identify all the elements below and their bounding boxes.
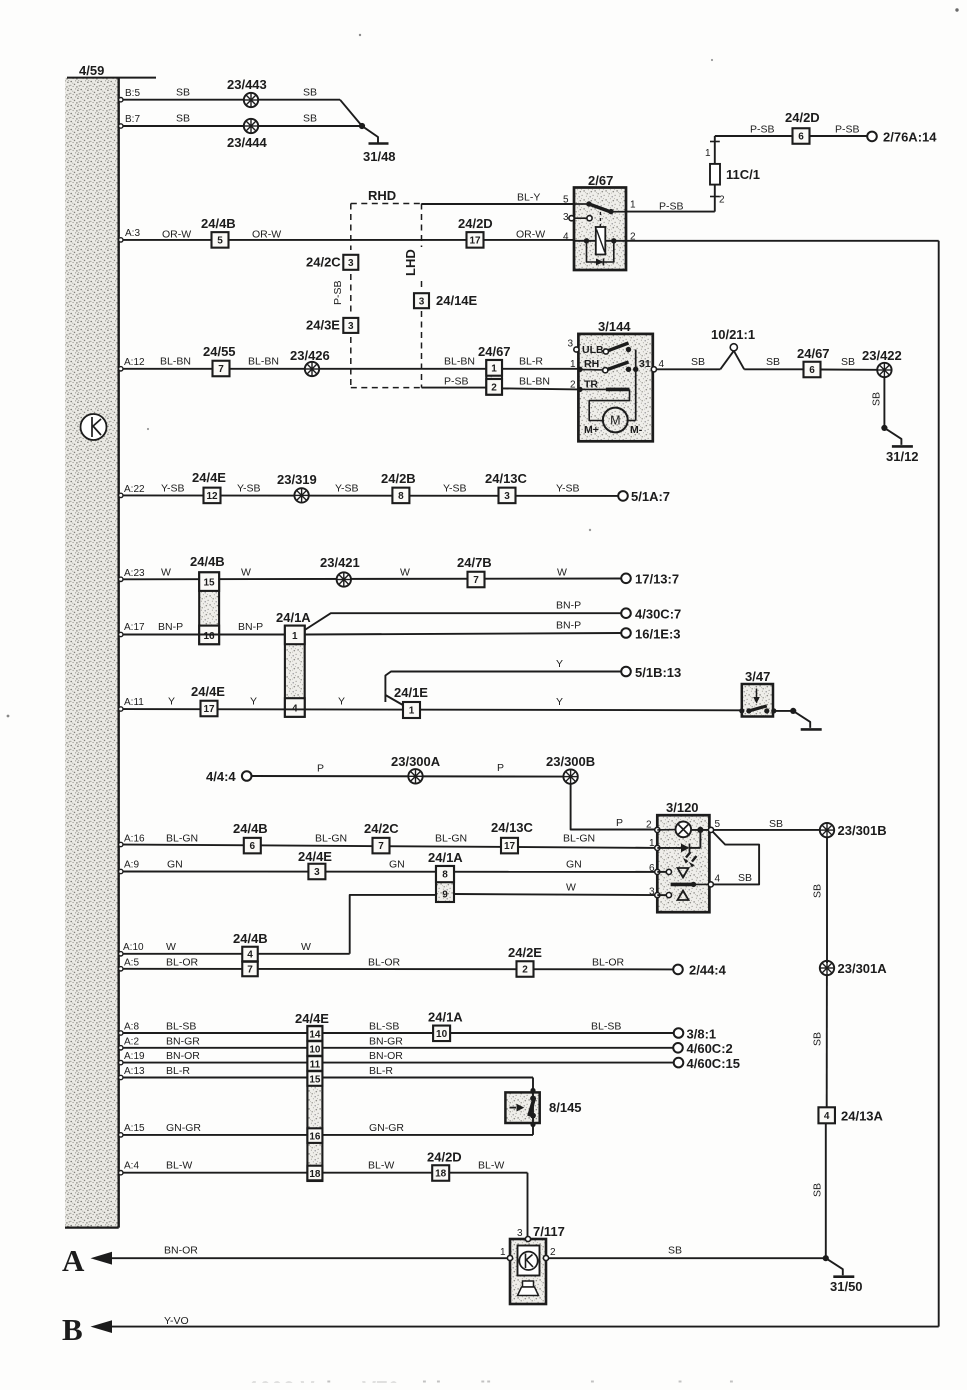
svg-text:3/8:1: 3/8:1: [687, 1027, 717, 1042]
svg-text:8/145: 8/145: [549, 1100, 582, 1115]
svg-text:BN-P: BN-P: [238, 621, 263, 633]
terminal 5/1B:13: [621, 667, 631, 677]
clock 7/117: [510, 1239, 546, 1304]
3/120 pin 5: [708, 827, 713, 832]
3/120 emission arrows: [686, 852, 691, 858]
svg-text:5: 5: [217, 236, 223, 247]
svg-text:A:3: A:3: [125, 228, 140, 239]
svg-text:23/301B: 23/301B: [838, 823, 887, 838]
connector 24/67 pin 6: [804, 362, 821, 378]
svg-text:OR-W: OR-W: [516, 229, 545, 241]
connector 24/4B pin 7: [242, 962, 258, 977]
svg-text:31/48: 31/48: [363, 149, 396, 164]
terminal 16/1E:3: [621, 628, 631, 638]
wire W from 24/1A pin9 to 3/120 pin3: [454, 894, 657, 895]
svg-text:10: 10: [309, 1044, 321, 1055]
svg-text:23/319: 23/319: [277, 472, 317, 487]
svg-text:7: 7: [247, 965, 253, 976]
svg-text:B:7: B:7: [125, 114, 140, 125]
svg-text:3/120: 3/120: [666, 800, 699, 815]
svg-text:24/2B: 24/2B: [381, 471, 416, 486]
svg-text:24/14E: 24/14E: [436, 293, 478, 308]
svg-text:SB: SB: [769, 818, 783, 830]
wire A:17 BN-P: [119, 634, 285, 636]
svg-text:SB: SB: [812, 1183, 824, 1197]
svg-text:24/4E: 24/4E: [192, 470, 226, 485]
wire A:22 Y-SB: [119, 494, 619, 497]
svg-text:23/443: 23/443: [227, 77, 267, 92]
svg-text:5: 5: [715, 819, 721, 830]
svg-text:SB: SB: [691, 356, 705, 368]
svg-text:4: 4: [247, 950, 253, 961]
svg-text:BL-GN: BL-GN: [563, 833, 595, 845]
svg-text:RHD: RHD: [368, 188, 396, 203]
svg-text:BN-P: BN-P: [556, 620, 581, 632]
relay 2/67 pin3 stub: [569, 216, 574, 221]
pin A:23: [119, 577, 123, 581]
connector 24/13A pin 4: [818, 1107, 835, 1123]
svg-text:RH: RH: [584, 358, 599, 370]
svg-text:A:9: A:9: [124, 860, 139, 871]
ground lead 31/48: [362, 126, 378, 143]
svg-text:1: 1: [491, 364, 497, 375]
svg-text:24/7B: 24/7B: [457, 555, 492, 570]
svg-text:SB: SB: [841, 356, 855, 368]
svg-text:BL-W: BL-W: [368, 1160, 394, 1172]
connector 24/4B pin 6: [244, 838, 261, 854]
connector 24/67 pins 1-2: [486, 360, 502, 395]
svg-text:SB: SB: [812, 1032, 824, 1046]
terminal 4/30C:7: [621, 608, 631, 618]
svg-text:24/4E: 24/4E: [191, 684, 225, 699]
svg-text:24/1A: 24/1A: [428, 1010, 463, 1025]
svg-text:1: 1: [292, 631, 298, 642]
svg-text:Y: Y: [168, 696, 175, 708]
svg-text:3: 3: [568, 339, 574, 350]
svg-text:10: 10: [436, 1029, 448, 1040]
terminal 4/60C:15: [674, 1058, 684, 1068]
svg-text:BL-OR: BL-OR: [368, 957, 401, 969]
svg-text:10/21:1: 10/21:1: [711, 327, 755, 342]
pin A:12: [119, 367, 123, 371]
svg-text:3: 3: [348, 321, 354, 332]
svg-text:BL-SB: BL-SB: [591, 1021, 621, 1033]
svg-text:24/1E: 24/1E: [394, 685, 428, 700]
svg-text:Y-SB: Y-SB: [556, 483, 580, 495]
pin A:5: [119, 967, 123, 971]
wire B:7 SB: [119, 125, 362, 127]
svg-text:16: 16: [203, 631, 215, 642]
svg-text:BL-GN: BL-GN: [315, 833, 347, 845]
wire P down from 23/300B to 3/120 pin2: [571, 784, 658, 830]
svg-text:Y-SB: Y-SB: [335, 483, 359, 495]
wire bend to ground junction: [340, 100, 362, 126]
wire SB to splice 23/422: [820, 369, 877, 371]
3/144 RH switch: [603, 368, 608, 373]
svg-text:A:17: A:17: [124, 622, 145, 633]
pin A:19: [119, 1060, 123, 1064]
svg-text:A:2: A:2: [124, 1037, 139, 1048]
wire SB 23/301A up to 23/301B: [826, 835, 828, 963]
svg-text:P-SB: P-SB: [659, 201, 684, 213]
connector 24/13C pin 3: [499, 488, 516, 504]
terminal 2/76A:14: [867, 132, 877, 142]
terminal 17/13:7: [621, 574, 631, 584]
svg-text:BN-OR: BN-OR: [164, 1245, 198, 1257]
svg-text:Y-SB: Y-SB: [237, 483, 261, 495]
svg-text:23/300B: 23/300B: [546, 754, 595, 769]
right side vertical wire: [938, 241, 940, 1327]
wire Y-VO line B: [108, 1326, 939, 1328]
connector 24/14E pin 3: [414, 293, 429, 308]
fuse 11C/1: [710, 136, 720, 212]
svg-text:BL-OR: BL-OR: [592, 957, 625, 969]
connector 24/2D pin 6: [793, 128, 810, 144]
svg-text:11C/1: 11C/1: [726, 167, 760, 182]
connector 24/4E pin 17: [201, 701, 218, 717]
connector 24/2E pin 2: [517, 961, 534, 977]
svg-text:23/426: 23/426: [290, 348, 330, 363]
3/120 lamp: [676, 822, 692, 838]
svg-text:BL-SB: BL-SB: [166, 1021, 196, 1033]
wire A:19 BN-OR: [119, 1062, 674, 1064]
junction B:5/B:7: [359, 123, 365, 129]
svg-text:BN-GR: BN-GR: [369, 1036, 403, 1048]
wire A:3 OR-W: [119, 239, 574, 241]
svg-text:BL-BN: BL-BN: [519, 376, 550, 388]
3/120 pin4 contact bar: [671, 883, 694, 887]
svg-text:1: 1: [630, 200, 636, 211]
wire A:13 BL-R: [119, 1077, 533, 1079]
ground 31/12: [881, 425, 887, 431]
svg-text:23/422: 23/422: [862, 348, 902, 363]
svg-text:Y: Y: [556, 658, 563, 670]
wire BL-Y: [422, 203, 575, 205]
svg-text:A:5: A:5: [124, 958, 139, 969]
svg-text:24/4B: 24/4B: [190, 554, 225, 569]
svg-text:B:5: B:5: [125, 88, 140, 99]
svg-text:24/3E: 24/3E: [306, 318, 340, 333]
svg-text:A:15: A:15: [124, 1123, 145, 1134]
connector 24/2B pin 8: [392, 488, 409, 504]
svg-text:P-SB: P-SB: [332, 280, 344, 305]
wire SB riser from 31/50 junction: [825, 1123, 827, 1258]
svg-text:P-SB: P-SB: [444, 376, 469, 388]
8/145 switch blade: [529, 1098, 534, 1117]
svg-text:P: P: [317, 763, 324, 775]
svg-text:BN-P: BN-P: [158, 621, 183, 633]
splice 23/443: [244, 93, 258, 107]
svg-text:M: M: [610, 414, 620, 428]
3/144 motor loop: [589, 389, 629, 420]
3/144 pin3 ULB: [574, 347, 579, 352]
wire SB loop pin5 to pin4: [713, 832, 760, 885]
3/144 pin2 TR: [577, 387, 582, 392]
svg-text:Y: Y: [556, 696, 563, 708]
8/145 through wire: [532, 1092, 534, 1123]
svg-text:24/4E: 24/4E: [298, 849, 332, 864]
svg-text:W: W: [301, 941, 311, 953]
svg-text:15: 15: [203, 578, 215, 589]
svg-text:OR-W: OR-W: [252, 229, 281, 241]
connector 24/7B pin 7: [468, 572, 485, 588]
svg-text:2: 2: [646, 820, 652, 831]
svg-text:5: 5: [563, 195, 569, 206]
pin A:8: [119, 1031, 123, 1035]
svg-text:17: 17: [504, 841, 516, 852]
connector 24/4B pins 15-16: [199, 572, 219, 644]
pin A:13: [119, 1075, 123, 1079]
svg-text:24/4B: 24/4B: [233, 821, 268, 836]
terminal 4/60C:2: [673, 1043, 683, 1053]
svg-text:24/13A: 24/13A: [841, 1109, 884, 1124]
svg-text:3: 3: [419, 296, 425, 307]
svg-text:BL-SB: BL-SB: [369, 1021, 399, 1033]
connector 24/4E pin 12: [204, 488, 221, 504]
wire SB line A right of 7/117: [549, 1257, 826, 1259]
connector 24/1E pin 1: [403, 702, 420, 718]
svg-text:24/67: 24/67: [797, 346, 830, 361]
svg-text:Y: Y: [338, 696, 345, 708]
connector 24/4B pin 5: [212, 232, 229, 248]
svg-text:BN-P: BN-P: [556, 600, 581, 612]
svg-text:P-SB: P-SB: [750, 124, 775, 136]
svg-text:SB: SB: [303, 113, 317, 125]
3/120 pin 6: [655, 869, 660, 874]
svg-text:BL-R: BL-R: [369, 1065, 393, 1077]
svg-text:BL-Y: BL-Y: [517, 192, 540, 204]
relay 2/67 actuation dashed: [599, 212, 601, 227]
svg-text:2: 2: [570, 380, 576, 391]
wire SB from 3/144 pin4: [657, 368, 721, 370]
svg-text:7: 7: [473, 575, 479, 586]
svg-text:18: 18: [309, 1169, 321, 1180]
pin A:10: [119, 952, 123, 956]
wire BL-BN 24/67 pin2 to 3/144 pin2: [502, 388, 578, 389]
scan noise dots: [955, 8, 958, 11]
svg-text:31/50: 31/50: [830, 1279, 863, 1294]
svg-text:SB: SB: [668, 1245, 682, 1257]
cropped caption text: [248, 1378, 773, 1395]
connector 24/2C pin 3: [343, 255, 358, 270]
7/117 pins 1-2: [507, 1255, 512, 1260]
splice 23/426: [305, 362, 319, 376]
wire A:8 BL-SB: [119, 1032, 674, 1034]
wire A:5 BL-OR: [119, 968, 674, 971]
pin A:15: [119, 1133, 123, 1137]
svg-text:7/117: 7/117: [533, 1224, 565, 1239]
svg-text:6: 6: [250, 841, 256, 852]
pin B:7: [119, 124, 123, 128]
3/120 diode to lamp junction riser: [699, 830, 701, 848]
svg-text:6: 6: [798, 132, 804, 143]
pin A:3: [119, 238, 123, 242]
svg-text:W: W: [566, 882, 576, 894]
connector 24/4E pins 14-18: [307, 1026, 322, 1181]
svg-text:A:16: A:16: [124, 834, 145, 845]
wire BN-OR line A: [108, 1257, 507, 1259]
svg-text:24/4B: 24/4B: [201, 216, 236, 231]
connector 24/4B pin 4: [242, 947, 258, 962]
svg-text:Y: Y: [250, 696, 257, 708]
svg-text:BL-BN: BL-BN: [444, 356, 475, 368]
relay 2/67 pin4 internal wire: [574, 240, 596, 242]
svg-text:GN: GN: [167, 859, 183, 871]
3/47 contacts and blade: [739, 708, 744, 713]
svg-text:1: 1: [705, 148, 711, 159]
svg-text:A:8: A:8: [124, 1022, 139, 1033]
svg-text:24/2C: 24/2C: [364, 821, 399, 836]
svg-text:15: 15: [309, 1074, 321, 1085]
svg-text:2: 2: [719, 195, 725, 206]
wire A:9 GN: [119, 871, 658, 873]
svg-text:SB: SB: [176, 87, 190, 99]
svg-text:3/144: 3/144: [598, 319, 631, 334]
svg-text:24/2D: 24/2D: [458, 216, 493, 231]
ground 31/50: [823, 1255, 829, 1261]
svg-text:BL-GN: BL-GN: [435, 833, 467, 845]
svg-text:24/67: 24/67: [478, 344, 511, 359]
svg-text:31/12: 31/12: [886, 449, 919, 464]
svg-text:24/13C: 24/13C: [485, 471, 528, 486]
relay 2/67 coil: [596, 227, 606, 255]
wire SB down from 23/422: [883, 377, 885, 428]
svg-text:A:4: A:4: [124, 1161, 139, 1172]
3/144 RH internal wire: [578, 368, 602, 371]
svg-text:8: 8: [442, 870, 448, 881]
RHD/LHD variant dashed box: [351, 204, 422, 388]
connector 24/3E pin 3: [343, 318, 358, 333]
svg-text:2/76A:14: 2/76A:14: [883, 130, 937, 145]
svg-text:4: 4: [715, 874, 721, 885]
svg-text:7: 7: [378, 841, 384, 852]
svg-text:16/1E:3: 16/1E:3: [635, 627, 681, 642]
wire BN-P to 4/30C:7: [305, 613, 622, 630]
svg-text:BL-W: BL-W: [166, 1160, 192, 1172]
svg-text:Y-SB: Y-SB: [443, 483, 467, 495]
svg-text:23/300A: 23/300A: [391, 754, 441, 769]
svg-text:2: 2: [522, 965, 528, 976]
svg-text:M-: M-: [630, 424, 643, 436]
svg-text:BN-OR: BN-OR: [369, 1050, 403, 1062]
3/120 up-triangle: [678, 891, 689, 901]
3/120 pin 1: [655, 845, 660, 850]
3/144 motor M: [603, 408, 628, 433]
wire P-SB top row: [715, 135, 868, 137]
svg-text:5/1B:13: 5/1B:13: [635, 665, 681, 680]
wire P-SB from relay pin1: [626, 211, 715, 213]
connector 24/4E pin 3: [308, 864, 325, 880]
svg-text:GN: GN: [389, 859, 405, 871]
svg-text:1: 1: [570, 359, 576, 370]
pin A:17: [119, 632, 123, 636]
8/145 actuator arrow: [510, 1107, 517, 1109]
connector 24/2C pin 7: [373, 838, 390, 854]
relay 2/67 switch: [574, 203, 589, 205]
connector 24/1A pins 8-9: [436, 866, 454, 902]
3/120 down-triangle: [678, 868, 689, 878]
svg-text:17: 17: [469, 236, 481, 247]
pin A:16: [119, 842, 123, 846]
svg-text:BL-R: BL-R: [166, 1065, 190, 1077]
splice 23/444: [244, 119, 258, 133]
pin A:2: [119, 1046, 123, 1050]
svg-text:Y-SB: Y-SB: [161, 483, 185, 495]
terminal 5/1A:7: [618, 491, 628, 501]
svg-text:GN-GR: GN-GR: [369, 1122, 404, 1134]
svg-text:14: 14: [309, 1029, 321, 1040]
connector 24/2D pin 18: [432, 1165, 449, 1181]
svg-text:ULB: ULB: [582, 344, 604, 356]
svg-text:P: P: [616, 817, 623, 829]
svg-text:A:22: A:22: [124, 484, 145, 495]
wire OR-W from relay pin2 to right border: [626, 240, 939, 242]
ground: [790, 708, 796, 714]
svg-text:3: 3: [517, 1228, 523, 1239]
svg-text:A:12: A:12: [124, 357, 145, 368]
svg-text:23/421: 23/421: [320, 555, 360, 570]
wire A:12 BL-BN: [119, 368, 579, 370]
svg-text:A:10: A:10: [123, 942, 144, 953]
svg-text:BL-OR: BL-OR: [166, 957, 199, 969]
svg-text:12: 12: [206, 491, 218, 502]
connector 24/13C pin 17: [501, 838, 518, 854]
svg-text:W: W: [557, 567, 567, 579]
svg-text:BL-R: BL-R: [519, 356, 543, 368]
svg-text:24/55: 24/55: [203, 344, 236, 359]
svg-text:24/13C: 24/13C: [491, 820, 534, 835]
switch 8/145: [505, 1092, 539, 1123]
svg-text:24/4E: 24/4E: [295, 1011, 329, 1026]
svg-text:17: 17: [203, 704, 215, 715]
svg-text:31: 31: [639, 358, 651, 370]
wiper motor 3/144: [578, 334, 652, 441]
3/120 pin 2: [655, 827, 660, 832]
3/120 pin2 internal wire: [657, 829, 675, 831]
svg-text:2/44:4: 2/44:4: [689, 963, 727, 978]
svg-text:8: 8: [398, 491, 404, 502]
svg-text:6: 6: [809, 365, 815, 376]
pin A:4: [119, 1171, 123, 1175]
svg-text:24/2D: 24/2D: [427, 1150, 462, 1165]
connector 24/1A pins 1-4: [285, 626, 305, 717]
svg-text:3: 3: [563, 212, 569, 223]
terminal 2/44:4: [673, 965, 683, 975]
svg-text:SB: SB: [738, 872, 752, 884]
svg-text:W: W: [166, 941, 176, 953]
svg-text:16: 16: [309, 1132, 321, 1143]
wire P from 4/4:4: [251, 775, 564, 778]
wire A:10 W: [119, 953, 350, 955]
wire A:2 BN-GR: [119, 1047, 674, 1049]
wire BL-W drop to 7/117: [527, 1173, 529, 1237]
wire A:16 BL-GN: [119, 845, 658, 848]
splice 23/422: [877, 363, 891, 377]
7/117 speaker symbol: [523, 1281, 534, 1287]
wire Y to 5/1B:13: [385, 672, 621, 703]
svg-text:1: 1: [500, 1247, 506, 1258]
connector symbol K on bar: [81, 414, 107, 440]
svg-text:BL-BN: BL-BN: [248, 356, 279, 368]
3/144 internal bus: [635, 350, 637, 421]
svg-text:1: 1: [409, 706, 415, 717]
svg-text:23/301A: 23/301A: [838, 961, 888, 976]
pin A:22: [119, 493, 123, 497]
svg-text:24/2D: 24/2D: [785, 110, 820, 125]
splice 23/421: [337, 572, 351, 586]
svg-text:4/60C:2: 4/60C:2: [687, 1041, 733, 1056]
svg-text:SB: SB: [766, 356, 780, 368]
